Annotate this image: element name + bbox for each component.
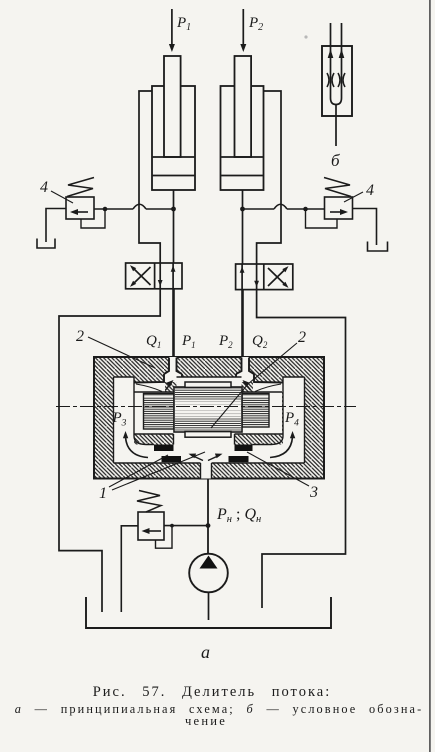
svg-text:Рис. 57. Делитель потока:: Рис. 57. Делитель потока: [93, 684, 332, 700]
wire Q2 to block [241, 290, 244, 358]
force arrow P2 [240, 9, 246, 52]
flow arrow into port2 [243, 380, 251, 390]
wire: cylinder2 rod-end line [257, 91, 281, 264]
junction dot [240, 207, 245, 212]
directional valve B1 [126, 263, 182, 289]
svg-text:Pн ; Qн: Pн ; Qн [216, 506, 261, 525]
junction dot [206, 523, 211, 528]
relief valve 4 right [306, 178, 388, 252]
force arrow P1 [169, 9, 175, 52]
pump [189, 554, 228, 620]
wire: left return to tank [59, 289, 160, 612]
spool body [174, 382, 242, 437]
tank [86, 597, 331, 628]
svg-text:1: 1 [99, 485, 107, 502]
flow divider block housing [94, 357, 324, 479]
junction dot [103, 207, 108, 212]
leader line label 2 right [211, 343, 297, 428]
leader line label 2 left [88, 337, 155, 368]
chamber arrow right [208, 454, 223, 461]
scan artifact: right edge line [429, 0, 431, 752]
flow divider symbol б [322, 23, 352, 146]
svg-text:3: 3 [309, 484, 318, 501]
orifice plate 3 (black bars) [235, 445, 253, 452]
spool left journal [144, 394, 175, 430]
svg-text:4: 4 [366, 182, 374, 199]
wire: cylinder1 piston-end line [173, 190, 175, 263]
flow arrow into port1 [166, 380, 174, 390]
wire: left relief branch with hop [94, 204, 174, 209]
wire: right relief branch with hop [243, 204, 325, 209]
wire: pump to block [207, 479, 209, 555]
axis dash-dot line [56, 406, 356, 408]
svg-text:чение: чение [185, 714, 227, 728]
directional valve B2 [236, 264, 293, 290]
junction dot [170, 524, 174, 528]
svg-text:2: 2 [76, 328, 84, 345]
cylinder Ц1 body [152, 56, 195, 190]
chamber arrow left [189, 454, 204, 461]
wire: right return to tank [257, 290, 346, 608]
wire Q1 to block [172, 289, 175, 358]
relief valve 4 left [37, 178, 105, 249]
orifice plate 1 (black bars) [154, 445, 174, 452]
svg-text:2: 2 [298, 329, 306, 346]
svg-text:а: а [201, 642, 210, 662]
relief valve 5 (pump safety) [121, 491, 208, 613]
scan artifact: speck [304, 35, 307, 38]
junction dot [303, 207, 308, 212]
cylinder Ц2 body [221, 56, 264, 190]
svg-text:4: 4 [40, 179, 48, 196]
elbow flow arrow left (P3 up) [123, 431, 148, 458]
wire: cylinder1 rod-end line [139, 91, 160, 263]
junction dot [171, 207, 176, 212]
wire: cylinder2 piston-end line [242, 190, 244, 264]
channel outlines [114, 358, 305, 479]
white channels carved [114, 357, 305, 479]
elbow flow arrow right (P4 up) [270, 431, 295, 458]
spool right journal [242, 394, 269, 428]
svg-text:б: б [331, 151, 340, 170]
